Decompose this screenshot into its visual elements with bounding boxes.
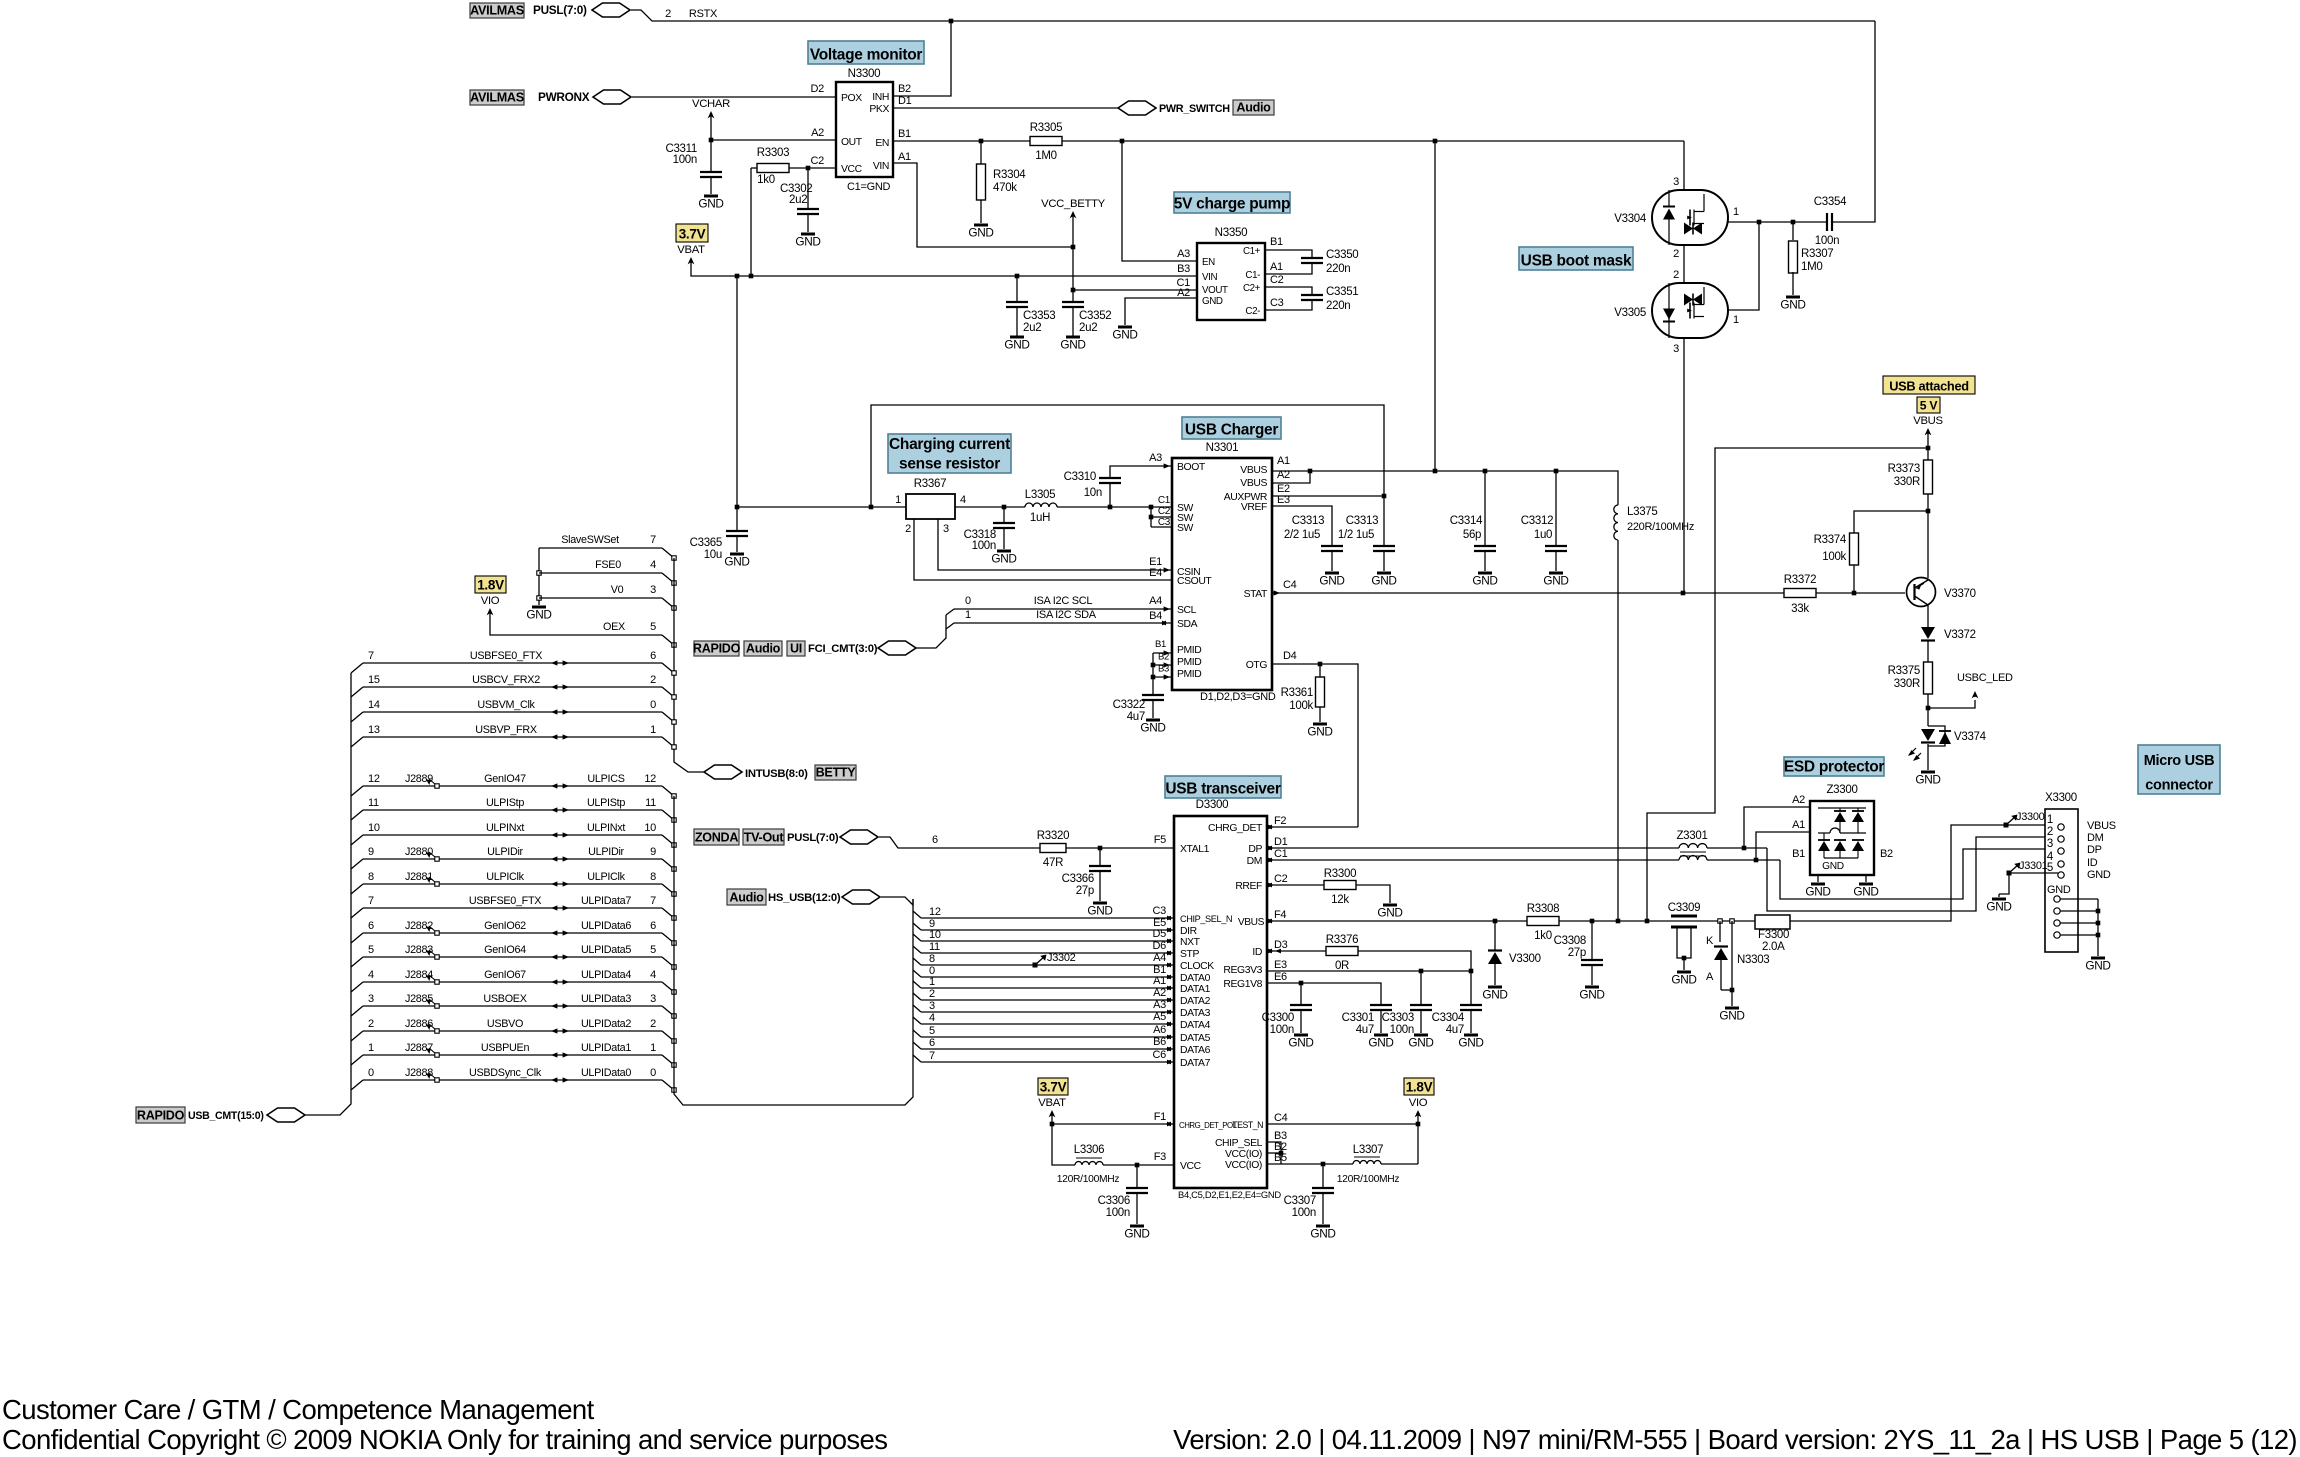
wire ULPICS	[351, 786, 363, 796]
svg-text:Z3301: Z3301	[1676, 830, 1707, 842]
svg-text:A: A	[1706, 971, 1714, 983]
wire ULPI lane 3	[913, 1005, 921, 1012]
svg-text:2: 2	[1673, 248, 1679, 260]
svg-text:GenIO62: GenIO62	[484, 920, 526, 932]
wire boot mask vertical	[1683, 141, 1685, 190]
capacitor C3308	[1591, 921, 1593, 960]
svg-text:47R: 47R	[1043, 857, 1063, 869]
wire fuse to connector	[1790, 825, 2058, 921]
svg-text:A3: A3	[1153, 999, 1166, 1011]
svg-text:D4: D4	[1283, 650, 1297, 662]
svg-text:10u: 10u	[704, 549, 722, 561]
capacitor C3350	[1265, 250, 1312, 258]
wire R3303 to VBAT rail	[750, 168, 752, 276]
wire EN down to VBUS rail	[1434, 141, 1436, 471]
resistor R3374	[1854, 511, 1928, 533]
inductor L3375	[1614, 505, 1618, 540]
wire SW pins	[1150, 507, 1152, 527]
wire STAT	[1272, 592, 1786, 594]
svg-text:C3309: C3309	[1668, 902, 1700, 914]
wire charger top loop	[871, 405, 1384, 546]
ground R3361	[1313, 723, 1327, 726]
svg-text:R3304: R3304	[993, 169, 1026, 181]
wire VBAT to sense	[737, 276, 906, 507]
svg-text:D2: D2	[811, 83, 825, 95]
svg-text:R3367: R3367	[914, 478, 946, 490]
svg-text:220R/100MHz: 220R/100MHz	[1627, 521, 1694, 533]
svg-text:VBUS: VBUS	[2087, 820, 2116, 832]
svg-text:4: 4	[650, 559, 656, 571]
svg-text:12: 12	[644, 773, 656, 785]
wire GND A2 pin	[1125, 298, 1197, 325]
svg-text:DATA3: DATA3	[1180, 1008, 1211, 1019]
resistor R3361	[1319, 664, 1321, 677]
wire USBCV_FRX2	[351, 687, 363, 697]
svg-text:6: 6	[650, 920, 656, 932]
svg-text:V3370: V3370	[1944, 588, 1976, 600]
wire RREF	[1267, 884, 1324, 886]
svg-text:3: 3	[1673, 343, 1679, 355]
svg-text:D1: D1	[898, 95, 912, 107]
svg-text:C2+: C2+	[1243, 283, 1261, 294]
svg-text:ULPIClk: ULPIClk	[587, 871, 625, 883]
ground V3300	[1488, 986, 1502, 989]
net label ZONDA	[694, 829, 739, 845]
wire REG3V3	[1267, 970, 1471, 972]
wire ULPI lane 12	[913, 911, 921, 918]
svg-text:PMID: PMID	[1177, 669, 1201, 680]
LED V3374	[1921, 729, 1935, 741]
wire CSOUT	[914, 519, 1172, 580]
wire SDA	[954, 622, 1172, 624]
svg-text:C1: C1	[1274, 848, 1288, 860]
ground C3306	[1130, 1225, 1144, 1228]
svg-text:A4: A4	[1149, 595, 1162, 607]
svg-text:2u2: 2u2	[1023, 322, 1041, 334]
svg-text:6: 6	[932, 834, 938, 846]
svg-text:C3: C3	[1153, 905, 1167, 917]
ground N3350	[1118, 326, 1132, 329]
svg-text:C3352: C3352	[1079, 310, 1111, 322]
svg-text:CHIP_SEL: CHIP_SEL	[1215, 1138, 1263, 1149]
svg-text:8: 8	[650, 871, 656, 883]
svg-text:C3354: C3354	[1814, 196, 1847, 208]
svg-text:14: 14	[368, 699, 380, 711]
svg-text:E4: E4	[1149, 567, 1162, 579]
svg-text:BOOT: BOOT	[1177, 462, 1206, 473]
svg-text:USB_CMT(15:0): USB_CMT(15:0)	[188, 1110, 264, 1122]
svg-text:R3320: R3320	[1037, 830, 1069, 842]
wire ULPI lane 0	[913, 970, 921, 977]
svg-text:GND: GND	[1368, 1036, 1393, 1050]
wire AUXPWR	[1272, 495, 1384, 497]
svg-text:C3303: C3303	[1382, 1012, 1414, 1024]
wire VBUS A2	[1272, 471, 1310, 483]
svg-text:C3306: C3306	[1098, 1195, 1130, 1207]
svg-text:Audio: Audio	[746, 642, 781, 656]
pin shield 2	[2054, 908, 2060, 914]
svg-text:4: 4	[368, 969, 374, 981]
svg-text:CHRG_DET_POL: CHRG_DET_POL	[1179, 1121, 1238, 1130]
svg-text:R3374: R3374	[1814, 534, 1847, 546]
svg-text:DATA2: DATA2	[1180, 996, 1211, 1007]
wire ULPIData5	[351, 957, 363, 967]
svg-text:PMID: PMID	[1177, 645, 1201, 656]
IC N3350 charge pump	[1197, 243, 1265, 320]
svg-text:sense resistor: sense resistor	[899, 456, 1000, 473]
svg-text:4: 4	[929, 1012, 935, 1024]
svg-text:USBVM_Clk: USBVM_Clk	[477, 699, 535, 711]
svg-text:11: 11	[929, 941, 940, 953]
svg-text:C2: C2	[1274, 873, 1288, 885]
svg-text:ZONDA: ZONDA	[695, 831, 738, 845]
svg-text:SlaveSWSet: SlaveSWSet	[561, 534, 619, 546]
svg-text:ULPIData6: ULPIData6	[581, 920, 631, 932]
svg-text:27p: 27p	[1076, 885, 1094, 897]
svg-text:CLOCK: CLOCK	[1180, 961, 1214, 972]
svg-text:GND: GND	[526, 608, 551, 622]
wire USBFSE0_FTX	[351, 663, 363, 673]
svg-text:V3304: V3304	[1614, 213, 1647, 225]
capacitor C3366	[1099, 848, 1101, 866]
bus HS_USB to transceiver	[881, 897, 913, 905]
svg-text:B1: B1	[1155, 639, 1166, 650]
svg-text:A2: A2	[1792, 794, 1805, 806]
svg-text:Confidential Copyright © 2009: Confidential Copyright © 2009 NOKIA Only…	[2, 1424, 887, 1455]
svg-text:F3300: F3300	[1758, 929, 1789, 941]
wire VBUS sense to charger detect	[1647, 448, 1928, 921]
resistor R3373	[1924, 460, 1933, 494]
svg-text:1: 1	[895, 494, 901, 506]
testpoint J3301	[2007, 871, 2012, 876]
svg-text:100k: 100k	[1822, 551, 1846, 563]
svg-text:GND: GND	[795, 235, 820, 249]
svg-text:PMID: PMID	[1177, 657, 1201, 668]
wire VBUS sense	[1927, 437, 1929, 578]
svg-text:330R: 330R	[1894, 678, 1920, 690]
ground V3374	[1921, 771, 1935, 774]
svg-text:10: 10	[644, 822, 656, 834]
svg-text:220n: 220n	[1326, 300, 1350, 312]
capacitor C3352	[1062, 301, 1084, 303]
wire LED to gnd	[1927, 744, 1929, 770]
node PWR_SWITCH	[1118, 101, 1156, 115]
svg-text:DATA5: DATA5	[1180, 1033, 1211, 1044]
svg-text:2: 2	[650, 1018, 656, 1030]
svg-text:3: 3	[929, 1000, 935, 1012]
svg-text:VIO: VIO	[481, 595, 500, 607]
wire TEST_N	[1267, 1123, 1418, 1125]
svg-text:V3374: V3374	[1954, 731, 1987, 743]
diode V3372	[1921, 627, 1935, 639]
svg-text:ULPIData7: ULPIData7	[581, 895, 631, 907]
ground C3365	[730, 553, 744, 556]
label ESD protector	[1784, 757, 1884, 776]
svg-text:0: 0	[650, 699, 656, 711]
ground C3308	[1585, 986, 1599, 989]
svg-text:A1: A1	[898, 151, 911, 163]
wire ULPIData3	[351, 1006, 363, 1016]
svg-text:A2: A2	[811, 127, 824, 139]
svg-text:GND: GND	[1853, 885, 1878, 899]
svg-text:VCC(IO): VCC(IO)	[1225, 1160, 1262, 1171]
wire RSTX	[631, 10, 1875, 21]
svg-text:3: 3	[650, 584, 656, 596]
wire OTG	[1272, 664, 1358, 827]
IC D3300 USB transceiver	[1174, 816, 1267, 1188]
svg-text:5: 5	[650, 621, 656, 633]
svg-text:2: 2	[929, 988, 935, 1000]
svg-text:VBUS: VBUS	[1238, 917, 1265, 928]
svg-text:GND: GND	[1482, 988, 1507, 1002]
svg-text:SDA: SDA	[1177, 619, 1198, 630]
ground C3314	[1478, 572, 1492, 575]
svg-text:Audio: Audio	[1236, 101, 1271, 115]
svg-text:J3302: J3302	[1047, 952, 1076, 964]
svg-text:A3: A3	[1149, 452, 1162, 464]
svg-text:1: 1	[2047, 814, 2053, 826]
wire L3306 to VCC	[1103, 1164, 1174, 1166]
svg-text:12k: 12k	[1331, 894, 1349, 906]
resistor R3375	[1924, 662, 1933, 694]
bus FCI_CMT ripper	[913, 615, 946, 648]
svg-text:J3300: J3300	[2016, 811, 2045, 823]
svg-text:GND: GND	[1915, 773, 1940, 787]
wire VIN to VCC_BETTY	[893, 163, 1073, 247]
svg-text:GenIO67: GenIO67	[484, 969, 526, 981]
label Charging current sense resistor	[888, 434, 1011, 473]
svg-text:REG1V8: REG1V8	[1223, 979, 1262, 990]
ground Z3300 B2	[1859, 883, 1873, 886]
svg-text:R3305: R3305	[1030, 122, 1062, 134]
svg-text:GND: GND	[1719, 1009, 1744, 1023]
wire SCL	[954, 608, 1172, 610]
svg-text:1k0: 1k0	[1534, 930, 1552, 942]
svg-text:VCC(IO): VCC(IO)	[1225, 1149, 1262, 1160]
svg-text:R3361: R3361	[1281, 687, 1313, 699]
svg-text:GND: GND	[1408, 1036, 1433, 1050]
net label AVILMAS (PWRONX)	[470, 90, 524, 105]
svg-text:8: 8	[929, 953, 935, 965]
svg-text:E3: E3	[1274, 959, 1287, 971]
svg-text:K: K	[1706, 935, 1714, 947]
svg-text:C1: C1	[1158, 495, 1171, 506]
svg-text:D1,D2,D3=GND: D1,D2,D3=GND	[1200, 691, 1276, 703]
svg-text:FCI_CMT(3:0): FCI_CMT(3:0)	[808, 643, 878, 655]
svg-text:1M0: 1M0	[1035, 150, 1056, 162]
svg-text:CHIP_SEL_N: CHIP_SEL_N	[1180, 914, 1232, 924]
svg-text:5V charge pump: 5V charge pump	[1174, 196, 1290, 213]
ground C3318	[997, 550, 1011, 553]
svg-text:ULPIData3: ULPIData3	[581, 993, 631, 1005]
svg-text:N3300: N3300	[848, 67, 881, 80]
ground C3322	[1146, 719, 1160, 722]
svg-text:VIO: VIO	[1409, 1097, 1428, 1109]
svg-text:USBFSE0_FTX: USBFSE0_FTX	[469, 895, 541, 907]
svg-text:GND: GND	[1377, 906, 1402, 920]
svg-text:GND: GND	[1371, 574, 1396, 588]
wire ULPI lane 4	[913, 1017, 921, 1024]
ground C3366	[1093, 902, 1107, 905]
svg-text:B6: B6	[1153, 1036, 1166, 1048]
wire PWRONX to POX	[632, 96, 836, 98]
svg-text:B4,C5,D2,E1,E2,E4=GND: B4,C5,D2,E1,E2,E4=GND	[1178, 1189, 1281, 1200]
svg-text:1: 1	[650, 724, 656, 736]
wire SlaveSWSet	[539, 547, 662, 549]
svg-text:C3351: C3351	[1326, 286, 1358, 298]
svg-text:GenIO64: GenIO64	[484, 944, 526, 956]
svg-text:C2: C2	[811, 155, 825, 167]
svg-text:REG3V3: REG3V3	[1223, 965, 1262, 976]
IC N3301 USB charger	[1172, 458, 1272, 690]
svg-text:2u2: 2u2	[789, 194, 807, 206]
svg-text:10: 10	[929, 929, 941, 941]
svg-text:7: 7	[368, 650, 374, 662]
capacitor C3322	[1142, 694, 1164, 696]
wire VOUT	[1073, 289, 1197, 291]
svg-text:GND: GND	[1202, 296, 1223, 307]
svg-text:1: 1	[965, 609, 971, 621]
svg-text:3.7V: 3.7V	[1040, 1080, 1067, 1095]
wire ULPI lane 2	[913, 993, 921, 1000]
svg-text:3: 3	[650, 993, 656, 1005]
svg-text:C3366: C3366	[1062, 873, 1094, 885]
svg-text:0: 0	[650, 1067, 656, 1079]
wire PUSL to XTAL1	[879, 837, 1040, 848]
svg-text:R3373: R3373	[1888, 463, 1920, 475]
wire ULPIStp	[351, 810, 363, 820]
svg-text:1.8V: 1.8V	[477, 578, 504, 593]
svg-text:10: 10	[368, 822, 380, 834]
wire DM	[1267, 859, 1679, 861]
svg-text:V0: V0	[611, 584, 624, 596]
wire VCC	[789, 167, 836, 169]
wire ULPIData2	[351, 1031, 363, 1041]
svg-text:B2: B2	[898, 83, 911, 95]
wire PMID pins	[1153, 652, 1172, 654]
svg-text:GND: GND	[698, 197, 723, 211]
svg-text:F5: F5	[1154, 834, 1166, 846]
svg-text:RAPIDO: RAPIDO	[137, 1109, 185, 1123]
svg-text:A3: A3	[1177, 248, 1190, 260]
wire CHRG_DET_POL	[1052, 1123, 1174, 1125]
svg-text:USBPUEn: USBPUEn	[481, 1042, 530, 1054]
svg-text:4u7: 4u7	[1356, 1024, 1374, 1036]
svg-text:VBAT: VBAT	[677, 244, 705, 256]
capacitor C3351	[1265, 287, 1312, 295]
svg-text:INTUSB(8:0): INTUSB(8:0)	[745, 768, 808, 780]
Z3300 internal diodes	[1818, 807, 1866, 809]
svg-text:0: 0	[368, 1067, 374, 1079]
ground J3301	[1992, 898, 2006, 901]
IC N3300 voltage monitor	[836, 82, 893, 177]
svg-text:11: 11	[645, 797, 656, 809]
svg-text:C1+: C1+	[1243, 246, 1261, 257]
svg-text:ISA I2C SDA: ISA I2C SDA	[1036, 609, 1097, 621]
svg-text:C3304: C3304	[1432, 1012, 1465, 1024]
wire DM route	[1707, 847, 1767, 849]
ground signal group	[532, 606, 546, 609]
wire EN A3	[1122, 141, 1197, 261]
svg-text:F1: F1	[1154, 1111, 1166, 1123]
wire R3367 out	[955, 506, 1025, 508]
svg-text:PUSL(7:0): PUSL(7:0)	[787, 832, 839, 844]
svg-text:6: 6	[368, 920, 374, 932]
svg-text:6: 6	[650, 650, 656, 662]
svg-text:CSOUT: CSOUT	[1177, 576, 1212, 587]
svg-text:470k: 470k	[993, 182, 1017, 194]
svg-text:GND: GND	[1780, 298, 1805, 312]
svg-text:USB boot mask: USB boot mask	[1521, 253, 1632, 270]
svg-text:1uH: 1uH	[1030, 512, 1050, 524]
svg-text:USBVO: USBVO	[487, 1018, 523, 1030]
svg-text:GND: GND	[1579, 988, 1604, 1002]
pin shield 4	[2054, 932, 2060, 938]
svg-text:F2: F2	[1274, 815, 1286, 827]
svg-text:100n: 100n	[1292, 1207, 1316, 1219]
svg-text:VBUS: VBUS	[1913, 415, 1943, 427]
svg-text:C3: C3	[1270, 297, 1284, 309]
svg-text:100n: 100n	[972, 540, 996, 552]
svg-text:A4: A4	[1153, 952, 1166, 964]
svg-text:1: 1	[929, 976, 935, 988]
label 5V charge pump	[1174, 192, 1290, 213]
svg-text:1: 1	[650, 1042, 656, 1054]
testpoint J3302	[1033, 963, 1038, 968]
svg-text:GND: GND	[1543, 574, 1568, 588]
svg-text:C3353: C3353	[1023, 310, 1055, 322]
svg-text:GND: GND	[1319, 574, 1344, 588]
wire ID	[1267, 950, 1326, 952]
svg-text:R3308: R3308	[1527, 903, 1559, 915]
svg-text:GND: GND	[1671, 973, 1696, 987]
ground R3300	[1383, 904, 1397, 907]
resistor R3304	[980, 141, 982, 165]
net label RAPIDO (FCI_CMT)	[694, 641, 739, 656]
capacitor C3318	[1003, 507, 1005, 523]
wire VREF	[1272, 506, 1332, 546]
svg-text:ULPIDir: ULPIDir	[487, 846, 523, 858]
diode V3300	[1494, 921, 1496, 950]
ground Z3300 B1	[1811, 883, 1825, 886]
svg-text:L3307: L3307	[1353, 1144, 1383, 1156]
svg-text:DP: DP	[2087, 844, 2102, 856]
wire VBUS F4	[1267, 920, 1528, 922]
wire VCHAR to OUT	[711, 120, 836, 140]
svg-text:A2: A2	[1177, 287, 1190, 299]
svg-text:B3: B3	[1177, 263, 1190, 275]
svg-text:CHRG_DET: CHRG_DET	[1208, 823, 1263, 834]
bus left vertical	[302, 673, 351, 1115]
svg-text:AVILMAS: AVILMAS	[470, 4, 524, 18]
svg-text:Z3300: Z3300	[1826, 784, 1857, 796]
svg-text:A5: A5	[1153, 1011, 1166, 1023]
svg-text:V3300: V3300	[1509, 953, 1541, 965]
svg-text:5 V: 5 V	[1920, 399, 1939, 413]
svg-text:9: 9	[650, 846, 656, 858]
svg-text:GND: GND	[2085, 959, 2110, 973]
svg-text:GND: GND	[1060, 338, 1085, 352]
svg-text:Micro USB: Micro USB	[2144, 753, 2215, 769]
svg-text:C4: C4	[1274, 1112, 1288, 1124]
svg-text:Voltage monitor: Voltage monitor	[810, 47, 923, 64]
wire USBVP_FRX	[351, 737, 363, 747]
svg-text:GND: GND	[1986, 900, 2011, 914]
svg-text:9: 9	[368, 846, 374, 858]
svg-text:GND: GND	[1458, 1036, 1483, 1050]
wire DP	[1267, 847, 1679, 849]
supply 1.8V VIO left	[475, 576, 506, 593]
